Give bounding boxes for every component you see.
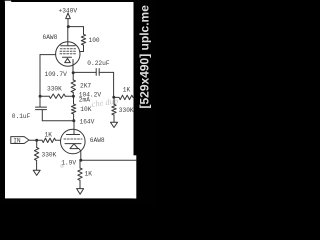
svg-text:330K: 330K	[47, 86, 62, 93]
svg-text:2K7: 2K7	[80, 83, 91, 90]
svg-text:10K: 10K	[80, 106, 91, 113]
svg-text:IN: IN	[13, 138, 21, 145]
svg-text:2mA: 2mA	[79, 97, 90, 104]
svg-text:109.7V: 109.7V	[45, 71, 68, 78]
svg-text:0.22uF: 0.22uF	[87, 60, 110, 67]
svg-text:1K: 1K	[123, 87, 131, 94]
svg-text:330K: 330K	[119, 107, 134, 114]
svg-text:100: 100	[89, 37, 100, 44]
svg-text:[529x490] uplc.me: [529x490] uplc.me	[138, 5, 152, 109]
svg-text:1K: 1K	[85, 170, 93, 177]
svg-text:+340V: +340V	[59, 8, 78, 15]
svg-text:1.9V: 1.9V	[61, 159, 76, 166]
svg-text:0.1uF: 0.1uF	[12, 113, 31, 120]
svg-text:164V: 164V	[80, 118, 95, 125]
svg-text:330K: 330K	[42, 151, 57, 158]
svg-text:1K: 1K	[45, 132, 53, 139]
svg-text:6AW8: 6AW8	[90, 137, 105, 144]
svg-text:6AW8: 6AW8	[43, 34, 58, 41]
